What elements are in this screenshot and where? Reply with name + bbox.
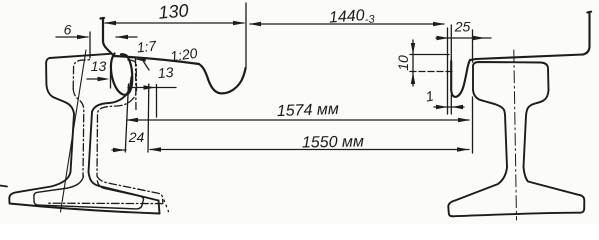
svg-text:13: 13 bbox=[91, 58, 107, 74]
svg-text:1:7: 1:7 bbox=[136, 37, 158, 55]
svg-text:1574 мм: 1574 мм bbox=[277, 101, 340, 120]
svg-text:1550 мм: 1550 мм bbox=[302, 133, 364, 151]
svg-text:13: 13 bbox=[157, 64, 174, 81]
svg-text:10: 10 bbox=[395, 55, 411, 71]
svg-text:130: 130 bbox=[158, 0, 190, 23]
svg-text:25: 25 bbox=[454, 19, 471, 35]
svg-text:6: 6 bbox=[64, 22, 72, 38]
svg-text:24: 24 bbox=[128, 129, 145, 145]
